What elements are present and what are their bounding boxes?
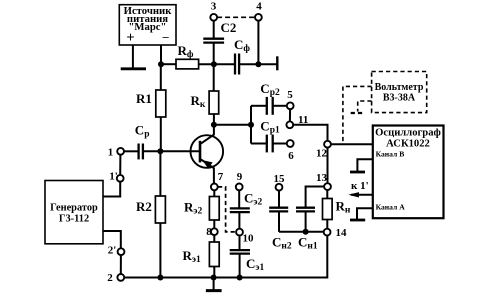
svg-text:9: 9: [237, 171, 243, 183]
svg-text:11: 11: [298, 114, 308, 126]
svg-text:2': 2': [108, 245, 117, 257]
svg-text:В3-38А: В3-38А: [383, 92, 416, 103]
svg-text:15: 15: [274, 173, 286, 185]
svg-text:7: 7: [218, 171, 224, 183]
svg-text:Канал В: Канал В: [376, 150, 405, 159]
svg-text:2: 2: [107, 272, 113, 284]
svg-text:6: 6: [288, 150, 294, 162]
svg-text:1: 1: [108, 147, 114, 159]
svg-text:Канал А: Канал А: [376, 203, 406, 212]
svg-text:R1: R1: [136, 91, 152, 106]
svg-text:8: 8: [206, 226, 212, 238]
svg-text:Генератор: Генератор: [50, 203, 98, 214]
svg-text:Г3-112: Г3-112: [59, 213, 89, 224]
svg-text:Осциллограф: Осциллограф: [375, 127, 441, 138]
svg-text:R2: R2: [136, 199, 152, 214]
svg-text:5: 5: [287, 89, 293, 101]
svg-text:–: –: [162, 30, 170, 44]
svg-text:+: +: [126, 30, 134, 46]
svg-text:1': 1': [109, 171, 118, 183]
svg-text:АСК1022: АСК1022: [386, 138, 430, 149]
svg-text:3: 3: [211, 1, 217, 13]
svg-text:С2: С2: [221, 20, 237, 35]
svg-text:13: 13: [316, 172, 328, 184]
svg-text:4: 4: [256, 1, 262, 13]
svg-text:к 1': к 1': [351, 180, 369, 192]
svg-text:10: 10: [243, 233, 255, 245]
svg-text:12: 12: [316, 148, 328, 160]
svg-text:14: 14: [336, 227, 348, 239]
